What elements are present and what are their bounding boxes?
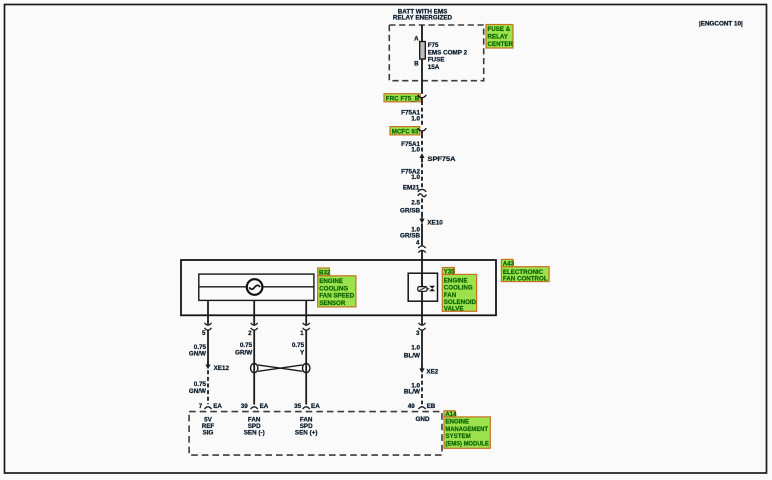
svg-text:RELAY ENERGIZED: RELAY ENERGIZED [393,15,453,22]
svg-text:EM21: EM21 [403,184,420,191]
svg-text:MANAGEMENT: MANAGEMENT [445,426,488,433]
svg-text:XE10: XE10 [427,220,443,227]
svg-text:GR/SB: GR/SB [400,208,420,215]
svg-text:EA: EA [311,403,320,410]
svg-text:FAN: FAN [444,292,457,299]
svg-text:SENSOR: SENSOR [319,300,346,307]
svg-text:1: 1 [300,330,304,337]
svg-text:FUSE: FUSE [428,57,445,64]
svg-text:0.75: 0.75 [240,342,253,349]
svg-text:SYSTEM: SYSTEM [445,433,470,440]
svg-text:BL/W: BL/W [404,352,420,359]
svg-text:XE12: XE12 [214,365,230,372]
svg-text:F75: F75 [428,42,439,49]
svg-text:2.5: 2.5 [411,200,420,207]
svg-text:Y35: Y35 [444,269,456,276]
svg-text:EMS COMP 2: EMS COMP 2 [428,49,468,56]
svg-text:SPF75A: SPF75A [428,156,457,163]
svg-text:|ENGCONT 10|: |ENGCONT 10| [699,21,743,28]
svg-text:COOLING: COOLING [444,285,473,292]
svg-text:GR/W: GR/W [235,350,252,357]
svg-text:ENGINE: ENGINE [319,278,343,285]
svg-text:GND: GND [416,416,430,423]
svg-text:A: A [414,35,419,42]
svg-text:SIG: SIG [203,430,214,437]
svg-text:B32: B32 [319,269,331,276]
svg-text:0.75: 0.75 [292,342,305,349]
svg-text:3: 3 [416,330,420,337]
svg-text:2: 2 [248,330,252,337]
svg-text:B: B [414,61,419,68]
svg-text:CENTER: CENTER [488,41,514,48]
svg-text:ENGINE: ENGINE [445,419,469,426]
svg-text:ENGINE: ENGINE [444,277,468,284]
svg-text:VALVE: VALVE [444,306,464,313]
svg-text:35: 35 [294,403,302,410]
svg-text:1.0: 1.0 [411,174,420,181]
svg-text:39: 39 [241,403,249,410]
svg-text:FAN SPEED: FAN SPEED [319,293,355,300]
svg-text:49: 49 [408,403,416,410]
svg-text:7: 7 [199,403,203,410]
svg-text:FRC F75_B: FRC F75_B [386,95,420,102]
svg-text:4: 4 [416,239,420,246]
svg-text:RELAY: RELAY [488,34,509,41]
svg-text:EA: EA [260,403,269,410]
svg-text:1.0: 1.0 [411,115,420,122]
svg-text:(EMS) MODULE: (EMS) MODULE [445,441,489,448]
svg-text:1.0: 1.0 [411,345,420,352]
svg-text:5: 5 [202,330,206,337]
svg-text:EB: EB [427,403,436,410]
svg-text:EA: EA [213,403,222,410]
svg-text:FUSE &: FUSE & [488,26,511,33]
svg-text:15A: 15A [428,64,440,71]
svg-text:XE2: XE2 [426,369,438,376]
svg-text:GN/W: GN/W [189,388,206,395]
svg-text:BL/W: BL/W [404,388,420,395]
svg-text:GN/W: GN/W [189,350,206,357]
svg-text:1.0: 1.0 [411,147,420,154]
svg-text:COOLING: COOLING [319,285,348,292]
svg-text:A14: A14 [445,411,457,418]
svg-text:FAN CONTROL: FAN CONTROL [503,276,548,283]
svg-text:SEN (-): SEN (-) [244,430,265,437]
svg-text:MCFC 93: MCFC 93 [392,128,419,135]
svg-text:A43: A43 [503,261,515,268]
svg-text:SEN (+): SEN (+) [295,430,318,437]
